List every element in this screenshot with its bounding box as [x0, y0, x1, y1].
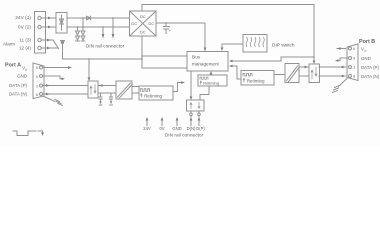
svg-text:8: 8: [36, 93, 38, 97]
svg-text:Alarm: Alarm: [3, 42, 15, 47]
wire DC/DC right output: [156, 23, 206, 51]
svg-text:12 (4): 12 (4): [19, 46, 31, 51]
wire retiming A to bus management: [173, 81, 185, 91]
svg-text:DATA (N): DATA (N): [9, 92, 28, 97]
surge suppressor on 0V rail: [76, 26, 80, 41]
wire retiming B to isolation B: [274, 74, 285, 76]
wire isolation A to retiming A (lower): [132, 92, 139, 94]
DC/DC converter U1: [130, 11, 157, 36]
terminal D(N) DIN bus: [190, 111, 193, 116]
wire retiming to bus management: [210, 71, 213, 75]
svg-text:DIN rail connector: DIN rail connector: [165, 133, 204, 139]
svg-text:DC: DC: [140, 14, 146, 19]
wire 0V to DIN rail connector: [102, 26, 105, 38]
wire isolation A to retiming A (upper): [132, 86, 139, 88]
wire GND port B: [335, 58, 349, 62]
wire DC/DC bottom to bus management: [141, 36, 187, 68]
svg-text:DATA (P): DATA (P): [361, 65, 379, 70]
svg-text:DC: DC: [131, 21, 137, 26]
D-sub connector port A: [33, 63, 44, 99]
svg-text:management: management: [192, 62, 220, 67]
DIP switch S1: [243, 35, 267, 53]
svg-text:Port A: Port A: [5, 63, 21, 69]
diode D1 on 24V rail: [87, 16, 91, 20]
wire bus management to DIN transceiver: [190, 71, 193, 100]
svg-text:11 (3): 11 (3): [19, 38, 31, 43]
chassis ground port A: [44, 97, 63, 106]
svg-text:D(N): D(N): [187, 126, 196, 131]
capacitor C1: [164, 22, 171, 33]
wire relay terminal 3: [41, 39, 53, 42]
svg-text:DATA (P): DATA (P): [9, 83, 27, 88]
svg-text:3: 3: [36, 84, 38, 88]
wire GND port A: [43, 76, 66, 80]
wire bus management to retiming B (lower): [229, 65, 241, 79]
wire relay terminal 4: [41, 47, 57, 50]
pin 0V DIN connector: [161, 117, 164, 126]
transceiver A: [88, 81, 98, 98]
isolation barrier A: [116, 81, 132, 99]
svg-text:Retiming: Retiming: [247, 78, 265, 83]
D-sub connector port B: [347, 44, 358, 81]
svg-text:Retiming: Retiming: [144, 94, 162, 99]
wire retiming to DIN transceiver: [200, 86, 209, 100]
svg-text:GND: GND: [172, 126, 181, 131]
wire relay to bus management: [63, 58, 143, 60]
svg-text:DC: DC: [148, 21, 154, 26]
svg-text:D(P): D(P): [196, 126, 205, 131]
retiming B: [241, 71, 274, 86]
chassis ground port B: [333, 79, 348, 93]
wire VP port A: [43, 66, 73, 69]
svg-text:24V (1): 24V (1): [15, 15, 31, 21]
terminal D(P) DIN bus: [198, 111, 201, 116]
wire VP port B: [337, 47, 346, 50]
svg-text:P: P: [25, 68, 27, 72]
svg-text:24V: 24V: [143, 126, 151, 131]
retiming A: [139, 86, 173, 100]
svg-text:DATA (N): DATA (N): [361, 74, 380, 79]
relay actuator arrow: [60, 41, 64, 60]
0V rail: [67, 26, 130, 28]
capacitor C2 to earth: [99, 93, 102, 105]
wire 24V terminal 1 to filter: [41, 17, 56, 20]
transceiver B: [309, 64, 320, 83]
wire supply to transceiver B top: [313, 57, 316, 64]
wire DATA (N) port A to transceiver: [43, 93, 89, 96]
bus management U2: [187, 52, 228, 72]
wire 0V terminal 2 to filter: [41, 26, 56, 29]
surge suppressor on 24V rail: [81, 17, 85, 41]
24V rail: [67, 17, 130, 19]
input filter F1: [56, 13, 67, 34]
wire DC/DC top to port B supply: [142, 5, 314, 58]
svg-text:0V: 0V: [159, 126, 164, 131]
wire isolation B to transceiver B (upper): [299, 66, 308, 69]
retiming (DIN bus): [198, 75, 227, 86]
wire bus management to transceiver A: [88, 58, 91, 81]
isolation barrier B: [285, 64, 299, 83]
wire transceiver B to DATA (P) port B: [319, 66, 346, 69]
svg-text:GND: GND: [17, 74, 27, 79]
svg-text:5: 5: [353, 57, 355, 61]
pin D(N) DIN connector: [190, 116, 193, 126]
relay contact K1: [53, 40, 59, 49]
svg-text:GND: GND: [361, 56, 371, 61]
svg-text:DIP switch: DIP switch: [272, 43, 295, 49]
svg-text:+: +: [169, 29, 171, 33]
svg-text:P: P: [365, 49, 367, 53]
wire bus management to port B (upper): [229, 56, 315, 62]
pin 24V DIN connector: [146, 117, 149, 126]
svg-text:6: 6: [36, 66, 38, 70]
transceiver DIN bus: [187, 100, 205, 111]
svg-text:5: 5: [36, 75, 38, 79]
pin D(P) DIN connector: [198, 116, 201, 126]
wire transceiver B to DATA (N) port B: [319, 75, 346, 78]
svg-text:Port B: Port B: [359, 39, 375, 45]
pin GND DIN connector: [176, 117, 179, 126]
wire DIP switch to bus management: [221, 44, 243, 51]
svg-text:DIN rail connector: DIN rail connector: [86, 44, 125, 50]
svg-text:8: 8: [353, 75, 355, 79]
svg-text:Bus: Bus: [192, 55, 201, 60]
svg-text:Retiming: Retiming: [203, 81, 219, 86]
wire transceiver A to isolation (lower): [98, 92, 116, 94]
capacitor C3 to earth: [110, 93, 113, 105]
wire DATA (P) port A to transceiver: [43, 84, 89, 87]
svg-text:3: 3: [353, 66, 355, 70]
svg-text:6: 6: [353, 47, 355, 51]
svg-text:0V (2): 0V (2): [18, 25, 31, 31]
svg-text:DC: DC: [140, 30, 146, 35]
wire 24V to DIN rail connector: [112, 17, 115, 38]
terminal block X1: [35, 12, 46, 54]
signal waveform symbol: [13, 131, 44, 136]
wire isolation B to transceiver B (lower): [299, 75, 308, 77]
wire transceiver A to isolation (upper): [98, 84, 116, 87]
